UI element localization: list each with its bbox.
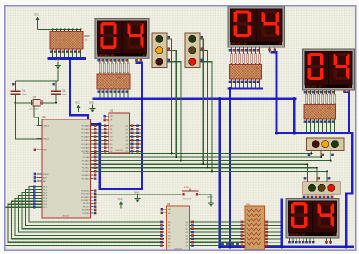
svg-text:P3.3/INT1: P3.3/INT1 bbox=[81, 200, 90, 202]
svg-text:P0.1/AD1: P0.1/AD1 bbox=[81, 128, 89, 131]
wire RN2 pin to bus bbox=[251, 79, 253, 88]
wire button to ground bbox=[198, 194, 211, 199]
wire P0.0 to U3 D0 bbox=[91, 125, 109, 127]
node RN5 top pin bbox=[68, 28, 70, 30]
wire U2 Q6 to RN4 bbox=[190, 241, 246, 243]
logic probe bus bbox=[226, 243, 228, 245]
svg-text:D5: D5 bbox=[168, 239, 170, 241]
wire: blue bus display2 DP down bbox=[272, 52, 277, 133]
wire U2 Q3 to RN4 bbox=[190, 231, 246, 233]
svg-text:ABCDEFG DP: ABCDEFG DP bbox=[290, 233, 306, 236]
svg-text:D6: D6 bbox=[110, 148, 112, 150]
svg-text:Q6: Q6 bbox=[185, 242, 188, 244]
pin P3 stub bbox=[91, 193, 94, 195]
svg-text:VCC: VCC bbox=[75, 102, 80, 104]
svg-text:Q3: Q3 bbox=[125, 136, 128, 138]
node RN5 top pin bbox=[80, 28, 82, 30]
pin P2 stub bbox=[91, 178, 94, 180]
svg-text:XTAL2: XTAL2 bbox=[43, 137, 50, 140]
node display4 top pin bbox=[327, 196, 329, 198]
wire: main horizontal blue bus bbox=[94, 97, 295, 100]
wire U2 Q5 to RN4 bbox=[190, 238, 246, 240]
wire display1 pin bbox=[115, 59, 117, 74]
resistor network RN3 bbox=[291, 104, 348, 149]
pin PSEN/ALE/EA bbox=[37, 173, 42, 175]
svg-text:Q3: Q3 bbox=[185, 232, 188, 234]
node RN5 top pin bbox=[56, 28, 58, 30]
wire RN1 pin to bus bbox=[127, 89, 129, 98]
wire RN5 pin bbox=[72, 49, 74, 57]
wire: blue bus main drop to bottom bbox=[219, 99, 221, 246]
svg-text:P0.0/AD0: P0.0/AD0 bbox=[81, 124, 89, 127]
pin P3 stub bbox=[91, 196, 94, 198]
wire: crystal bus bbox=[15, 102, 56, 104]
wire RN2 pin to bus bbox=[255, 79, 257, 88]
resistor in pack bbox=[326, 94, 328, 104]
wire P0.7 to U3 D7 bbox=[91, 150, 109, 152]
node display4 top pin bbox=[315, 196, 317, 198]
svg-text:D4: D4 bbox=[110, 140, 112, 142]
wire RN4 right stub bbox=[265, 231, 281, 233]
resistor in pack bbox=[123, 63, 125, 73]
display2 DP pins bbox=[269, 47, 271, 52]
wire: blue bus RN5 to P0/U3 bbox=[70, 59, 100, 124]
pin P3 stub bbox=[91, 212, 94, 214]
svg-text:Q2: Q2 bbox=[185, 229, 188, 231]
node display4 top pin bbox=[323, 196, 325, 198]
wire display2 pin bbox=[239, 47, 241, 64]
wire P1.4 loop to U2 bbox=[15, 198, 164, 235]
capacitor C1 33pF bbox=[11, 90, 28, 103]
wire display3 pin bbox=[330, 90, 332, 104]
wire RN5 pin bbox=[68, 49, 70, 57]
wire U3 Q1 to bus bbox=[129, 128, 141, 130]
wire P0.5 to U3 D5 bbox=[91, 143, 109, 145]
pins U3 OE/LE bbox=[103, 115, 108, 117]
svg-text:ABCDEFG DP: ABCDEFG DP bbox=[99, 54, 115, 57]
wire P0.6 to U3 D6 bbox=[91, 147, 109, 149]
svg-text:Q7: Q7 bbox=[125, 151, 128, 153]
wire U3 Q5 to bus bbox=[129, 143, 141, 145]
node RN5 top pin bbox=[52, 28, 54, 30]
logic probe bus bbox=[221, 243, 223, 245]
wire: VCC to RN5 commons bbox=[37, 24, 39, 30]
pin P2 stub bbox=[91, 174, 94, 176]
wire P0.4 to U3 D4 bbox=[91, 139, 109, 141]
ground symbol near U3 bbox=[89, 103, 96, 113]
svg-text:P0.6/AD6: P0.6/AD6 bbox=[81, 147, 89, 150]
node display4 top pin bbox=[319, 196, 321, 198]
svg-text:D7: D7 bbox=[110, 151, 112, 153]
wire P1.2 loop to U2 bbox=[22, 193, 164, 229]
pin P3 stub bbox=[91, 190, 94, 192]
svg-text:ABCDEFG DP: ABCDEFG DP bbox=[232, 43, 248, 46]
wire: blue bus vertical AD bus at U3 bbox=[100, 63, 142, 189]
resistor in pack bbox=[111, 63, 113, 73]
svg-text:D4: D4 bbox=[168, 235, 170, 237]
wire P0.1 to U3 D1 bbox=[91, 128, 109, 130]
wire: X1 left to XTAL2 bbox=[15, 103, 41, 139]
pin P3 stub bbox=[91, 206, 94, 208]
svg-text:P2.3/A11: P2.3/A11 bbox=[82, 163, 90, 166]
resistor network RN4 bbox=[245, 204, 265, 250]
svg-text:P2.7/A15: P2.7/A15 bbox=[82, 177, 90, 180]
svg-text:33pF: 33pF bbox=[22, 94, 27, 96]
wire display3 pin bbox=[322, 90, 324, 104]
wire RN5 pin bbox=[60, 49, 62, 57]
svg-text:PSEN: PSEN bbox=[43, 174, 49, 176]
wire RN3 pin down bbox=[334, 119, 336, 126]
wire display2 pin bbox=[231, 47, 233, 64]
resistor in pack bbox=[330, 94, 332, 104]
svg-text:Q2: Q2 bbox=[125, 133, 128, 135]
7-segment display U5 showing 04 bbox=[95, 19, 149, 59]
wire U2 Q2 to RN4 bbox=[190, 228, 246, 230]
svg-text:33pF: 33pF bbox=[62, 94, 67, 96]
wire display2 pin bbox=[251, 47, 253, 64]
wire RN3 pin to bus bbox=[322, 124, 324, 132]
resistor in pack bbox=[334, 94, 336, 104]
wire RN3 pin to bus bbox=[314, 124, 316, 132]
latch U2 74HC373 bbox=[167, 203, 190, 251]
resistor network RN1 bbox=[83, 73, 144, 121]
node RN5 top pin bbox=[60, 28, 62, 30]
traffic light TL4 (horizontal) bbox=[303, 182, 341, 195]
wire P2.0 row bbox=[91, 152, 312, 154]
svg-text:D2: D2 bbox=[168, 229, 170, 231]
display3 DP pins bbox=[344, 90, 346, 92]
wire P0.2 to U3 D2 bbox=[91, 132, 109, 134]
wire P2.2 row bbox=[91, 160, 331, 162]
wire RN3 pin down bbox=[330, 119, 332, 126]
wire TL3 pins bbox=[310, 152, 312, 154]
wire RN2 pin to bus bbox=[235, 79, 237, 88]
svg-text:Q4: Q4 bbox=[125, 140, 128, 142]
wire RN5 pin bbox=[76, 49, 78, 57]
svg-text:P3.5/T1: P3.5/T1 bbox=[83, 206, 90, 208]
wire RN4 right stub bbox=[265, 228, 281, 230]
wire display3 pin bbox=[334, 90, 336, 104]
wire display1 pin bbox=[103, 59, 105, 74]
wire: X1 to XTAL1 bbox=[34, 106, 42, 125]
svg-text:ABCDEFG DP: ABCDEFG DP bbox=[306, 86, 322, 89]
resistor in pack bbox=[235, 54, 237, 64]
display4 DP pins bbox=[326, 238, 328, 244]
wire: blue bus drop to mid-right bbox=[293, 99, 295, 133]
svg-text:GND: GND bbox=[54, 60, 59, 62]
resistor in pack bbox=[251, 54, 253, 64]
wire P0.3 to U3 D3 bbox=[91, 136, 109, 138]
wire U2 Q4 to RN4 bbox=[190, 235, 246, 237]
wire P1.6 loop to U2 bbox=[8, 204, 164, 242]
wire TL2 pins bbox=[200, 39, 203, 164]
capacitor C2 33pF bbox=[51, 90, 67, 103]
svg-text:P0.5/AD5: P0.5/AD5 bbox=[81, 143, 89, 146]
display1 DP pins bbox=[136, 59, 138, 63]
wire P1.5 loop to U2 bbox=[12, 201, 164, 239]
wire: blue bus bar under RN2 bbox=[229, 87, 262, 89]
wire RN1 pin to bus bbox=[107, 89, 109, 98]
resistor network RN5 bbox=[34, 31, 100, 81]
wire RN4 right stub bbox=[265, 241, 281, 243]
logic probe display4 bbox=[289, 238, 291, 243]
logic probe display4 bbox=[309, 238, 311, 243]
resistor in pack bbox=[247, 54, 249, 64]
wire U3 Q0 to bus bbox=[129, 125, 141, 127]
wire TL4 pins bbox=[306, 164, 308, 182]
svg-text:P2.0/A8: P2.0/A8 bbox=[83, 152, 90, 155]
svg-text:VCC: VCC bbox=[34, 14, 39, 16]
wire P1.1 loop to U2 bbox=[26, 190, 164, 226]
logic probe display4 bbox=[306, 238, 308, 243]
wire: blue bus right edge down bbox=[346, 133, 352, 247]
resistor in pack bbox=[99, 63, 101, 73]
wire: crystal cap ground net bbox=[57, 70, 59, 81]
wire RN3 pin to bus bbox=[318, 124, 320, 132]
svg-text:RN5: RN5 bbox=[85, 35, 91, 38]
pin PSEN/ALE/EA bbox=[37, 177, 42, 179]
svg-text:P3.7/RD: P3.7/RD bbox=[82, 213, 90, 215]
wire RN1 pin to bus bbox=[119, 89, 121, 98]
wire RN2 pin to bus bbox=[259, 79, 261, 88]
wire P2.4 row bbox=[91, 167, 317, 169]
wire RN1 pin to bus bbox=[123, 89, 125, 98]
wire RN3 pin down bbox=[322, 119, 324, 126]
svg-text:Q6: Q6 bbox=[125, 148, 128, 150]
svg-text:Q4: Q4 bbox=[185, 235, 188, 237]
logic probe display4 bbox=[302, 238, 304, 243]
logic probe display4 bbox=[295, 238, 297, 243]
wire P1.0 loop to U2 bbox=[29, 187, 164, 222]
wire RN3 pin down bbox=[318, 119, 320, 126]
svg-text:P3.4/T0: P3.4/T0 bbox=[83, 203, 90, 205]
pin P3 stub bbox=[91, 199, 94, 201]
svg-text:BUTTON: BUTTON bbox=[183, 199, 192, 201]
svg-text:U4: U4 bbox=[42, 115, 46, 119]
wire P1.7 loop to U2 bbox=[4, 207, 163, 245]
wire display3 pin bbox=[318, 90, 320, 104]
logic probe bus bbox=[236, 243, 238, 245]
traffic light TL2 (vertical) bbox=[185, 33, 200, 68]
svg-text:Q0: Q0 bbox=[125, 125, 128, 127]
wire RN1 pin to bus bbox=[111, 89, 113, 98]
logic probe display4 bbox=[312, 238, 314, 243]
wire: blue bus RN2 down bbox=[229, 89, 231, 246]
wire display2 pin bbox=[247, 47, 249, 64]
svg-text:GND: GND bbox=[134, 193, 139, 195]
wire P3 to button bbox=[94, 193, 182, 195]
7-segment display U8 showing 04 bbox=[286, 199, 339, 239]
wire U3 Q2 to bus bbox=[129, 132, 141, 134]
wire display2 pin bbox=[255, 47, 257, 64]
svg-text:D6: D6 bbox=[168, 242, 170, 244]
pin P3 stub bbox=[91, 202, 94, 204]
wire RN4 right stub bbox=[265, 224, 281, 226]
svg-text:P0.4/AD4: P0.4/AD4 bbox=[81, 139, 89, 142]
resistor in pack bbox=[115, 63, 117, 73]
power VCC near U2 bbox=[118, 199, 123, 209]
node RN5 top pin bbox=[72, 28, 74, 30]
wire RN3 pin down bbox=[326, 119, 328, 126]
resistor in pack bbox=[103, 63, 105, 73]
wire TL1 pins bbox=[167, 39, 172, 153]
svg-text:P3.1/TXD: P3.1/TXD bbox=[81, 194, 90, 196]
wire display3 pin bbox=[314, 90, 316, 104]
wire: blue bus bar under RN5 bbox=[49, 57, 85, 60]
svg-text:Q1: Q1 bbox=[185, 225, 188, 227]
pin PSEN/ALE/EA bbox=[37, 180, 42, 182]
resistor in pack bbox=[314, 94, 316, 104]
wire RN2 pin to bus bbox=[239, 79, 241, 88]
resistor in pack bbox=[318, 94, 320, 104]
svg-text:Q0: Q0 bbox=[185, 222, 188, 224]
push button BTN1 bbox=[182, 187, 199, 200]
wire RN4 right stub bbox=[265, 221, 281, 223]
power VCC top-left bbox=[34, 14, 39, 24]
power VCC near U3 bbox=[75, 102, 80, 112]
pin XTAL1 bbox=[37, 124, 42, 126]
svg-text:GND: GND bbox=[207, 197, 212, 199]
svg-text:D2: D2 bbox=[110, 133, 112, 135]
wire display1 pin bbox=[119, 59, 121, 74]
wire RN2 pin to bus bbox=[231, 79, 233, 88]
wire: bottom horizontal blue bus bbox=[220, 246, 353, 248]
wire RN1 pin to bus bbox=[99, 89, 101, 98]
wire display2 pin bbox=[259, 47, 261, 64]
svg-text:Q1: Q1 bbox=[125, 129, 128, 131]
svg-text:Q5: Q5 bbox=[125, 144, 128, 146]
node display4 top pin bbox=[307, 196, 309, 198]
wire P1.3 loop to U2 bbox=[19, 195, 164, 232]
svg-text:P2.4/A12: P2.4/A12 bbox=[82, 167, 90, 170]
wire RN2 pin to bus bbox=[247, 79, 249, 88]
wire display1 pin bbox=[123, 59, 125, 74]
node bus junctions bbox=[140, 97, 143, 100]
resistor in pack bbox=[231, 54, 233, 64]
wire RN5 pin bbox=[52, 49, 54, 57]
svg-text:D7: D7 bbox=[168, 245, 170, 247]
ground symbol near RN5 bbox=[54, 60, 61, 70]
wire display3 pin bbox=[326, 90, 328, 104]
svg-text:GND: GND bbox=[89, 103, 94, 105]
wire RN2 pin to bus bbox=[243, 79, 245, 88]
microcontroller U4 80C51 bbox=[42, 115, 91, 218]
wire display3 pin bbox=[310, 90, 312, 104]
wire P2.5 row bbox=[91, 170, 328, 172]
resistor in pack bbox=[107, 63, 109, 73]
wire RN3 pin to bus bbox=[330, 124, 332, 132]
wire RN3 pin down bbox=[306, 119, 308, 126]
svg-text:74HC373: 74HC373 bbox=[115, 150, 123, 152]
logic probe bus bbox=[231, 243, 233, 245]
node display4 top pin bbox=[311, 196, 313, 198]
wire RN4 right stub bbox=[265, 245, 281, 247]
svg-text:VCC: VCC bbox=[118, 199, 123, 201]
wire U3 Q7 to bus bbox=[129, 150, 141, 152]
wire U2 Q7 to RN4 bbox=[190, 245, 246, 247]
wire RN3 pin to bus bbox=[334, 124, 336, 132]
node RN5 top pin bbox=[76, 28, 78, 30]
pins U2 OE/LE bbox=[161, 208, 167, 210]
wire RN5 pin bbox=[80, 49, 82, 57]
pin XTAL2 bbox=[37, 138, 42, 140]
svg-text:P2.1/A9: P2.1/A9 bbox=[83, 156, 90, 159]
traffic light TL1 (vertical) bbox=[152, 33, 167, 68]
resistor in pack bbox=[127, 63, 129, 73]
wire RN3 pin down bbox=[314, 119, 316, 126]
resistor in pack bbox=[259, 54, 261, 64]
wire P2.3 row bbox=[91, 163, 308, 165]
wire RN3 pin to bus bbox=[306, 124, 308, 132]
wire RN3 pin to bus bbox=[310, 124, 312, 132]
resistor in pack bbox=[119, 63, 121, 73]
7-segment display U6 showing 04 bbox=[228, 7, 285, 48]
wire: blue bus display3 DP down bbox=[345, 92, 350, 133]
svg-text:Q5: Q5 bbox=[185, 239, 188, 241]
resistor in pack bbox=[243, 54, 245, 64]
svg-text:D1: D1 bbox=[110, 129, 112, 131]
wire: blue bus horizontal mid-right bbox=[277, 132, 353, 134]
wire display2 pin bbox=[243, 47, 245, 64]
svg-text:80C51: 80C51 bbox=[63, 215, 70, 217]
wire RN5 pin bbox=[64, 49, 66, 57]
svg-text:P3.6/WR: P3.6/WR bbox=[82, 210, 90, 212]
pin P3 stub bbox=[91, 209, 94, 211]
svg-text:P0.3/AD3: P0.3/AD3 bbox=[81, 135, 89, 138]
svg-text:D3: D3 bbox=[110, 136, 112, 138]
svg-text:D5: D5 bbox=[110, 144, 112, 146]
latch U3 74HC373 bbox=[109, 110, 130, 154]
wire RN4 right stub bbox=[265, 238, 281, 240]
svg-text:D0: D0 bbox=[110, 125, 112, 127]
resistor in pack bbox=[255, 54, 257, 64]
wire display1 pin bbox=[127, 59, 129, 74]
wire display3 pin bbox=[306, 90, 308, 104]
svg-text:Q7: Q7 bbox=[185, 245, 188, 247]
wire display1 pin bbox=[107, 59, 109, 74]
node RN5 top pin bbox=[64, 28, 66, 30]
resistor in pack bbox=[306, 94, 308, 104]
traffic light TL3 (horizontal) bbox=[307, 138, 345, 151]
pin RST bbox=[37, 149, 42, 151]
svg-text:XTAL1: XTAL1 bbox=[43, 124, 50, 127]
wire RN1 pin to bus bbox=[103, 89, 105, 98]
wire: blue bus display4 left down bbox=[281, 200, 283, 247]
wire RN4 right stub bbox=[265, 235, 281, 237]
wire U3 Q3 to bus bbox=[129, 136, 141, 138]
wire RN5 pin bbox=[56, 49, 58, 57]
resistor in pack bbox=[322, 94, 324, 104]
ground symbol near U2 bbox=[134, 193, 141, 203]
resistor network RN2 bbox=[217, 64, 273, 109]
wire P2.1 row bbox=[91, 156, 322, 158]
resistor in pack bbox=[239, 54, 241, 64]
node display4 top pin bbox=[331, 196, 333, 198]
svg-text:ALE: ALE bbox=[43, 176, 47, 179]
wire U2 Q1 to RN4 bbox=[190, 224, 246, 226]
wire U2 Q0 to RN4 bbox=[190, 221, 246, 223]
svg-text:P2.5/A13: P2.5/A13 bbox=[82, 170, 90, 173]
7-segment display U7 showing 04 bbox=[303, 49, 355, 90]
svg-text:D3: D3 bbox=[168, 232, 170, 234]
svg-text:BTN1: BTN1 bbox=[184, 187, 190, 189]
wire U3 Q6 to bus bbox=[129, 147, 141, 149]
wire display1 pin bbox=[111, 59, 113, 74]
svg-text:10k: 10k bbox=[85, 40, 88, 42]
resistor in pack bbox=[310, 94, 312, 104]
node display4 top pin bbox=[303, 196, 305, 198]
svg-text:D1: D1 bbox=[168, 225, 170, 227]
